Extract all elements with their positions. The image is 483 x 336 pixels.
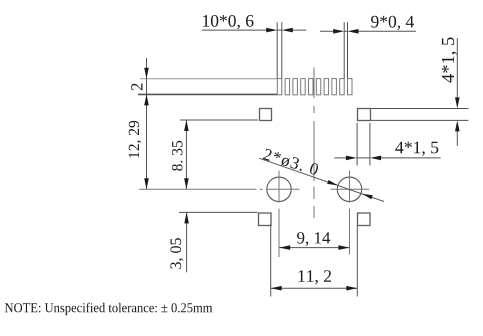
dimension 10*0,6 extension lines [277,22,282,78]
hole circle left [267,177,291,201]
dimension 8,35 top extension line [180,119,258,121]
left outer dimension line (2 / 12,29) [146,58,148,189]
dimension 3,05 text [170,238,183,269]
dimension 11,2 text [299,270,332,284]
dimension 11,2 line and arrows [271,287,358,289]
dimension 4*1,5 vertical right text [442,38,457,83]
top bar outline (part body bottom edge) [138,93,277,95]
dimension 12,29 text [129,121,142,158]
dimension 3,05 extension line [179,211,258,213]
left hole vertical centerline [278,171,280,257]
dimension 2 text [131,84,142,91]
dimension 8,35 line and arrows [185,120,187,189]
vertical main centerline [313,68,315,219]
horizontal centerline through holes [139,188,369,190]
dimension 10*0,6 text [203,15,254,29]
pad square bottom-left [259,213,272,226]
dimension 9*0,4 text [371,16,414,30]
hole circle right [337,177,361,201]
dimension 9,14 text [297,232,330,246]
dimension 9,14 line and arrows [279,247,349,249]
top bar outline (part body top edge) [140,78,277,80]
leader 2*diameter 3.0 text [263,149,318,175]
dimension 9*0,4 line and arrows [320,30,416,32]
dimension 4*1,5 vertical right line and arrows [456,38,458,146]
dimension 3,05 line and arrow [186,212,188,272]
leader 2*diameter 3.0 line [259,158,384,201]
dimension 4*1,5 horizontal extension lines [357,123,370,166]
pad square bottom-right [358,213,371,226]
dimension 10*0,6 line and arrows [202,29,306,31]
pad square top-right [358,109,371,121]
dimension 8,35 text [172,141,183,171]
dimension 4*1,5 horizontal line and arrows [334,157,440,159]
right hole vertical centerline [349,171,351,255]
pin row: 10 contact pins [277,79,352,95]
pad square top-left [260,109,272,121]
note text [5,303,212,316]
dimension 11,2 extension lines [271,224,358,297]
right arm outline [371,109,469,121]
dimension 9*0,4 extension lines [344,22,347,78]
leader arrows [327,180,373,199]
dimension 4*1,5 horizontal right text [395,142,438,156]
